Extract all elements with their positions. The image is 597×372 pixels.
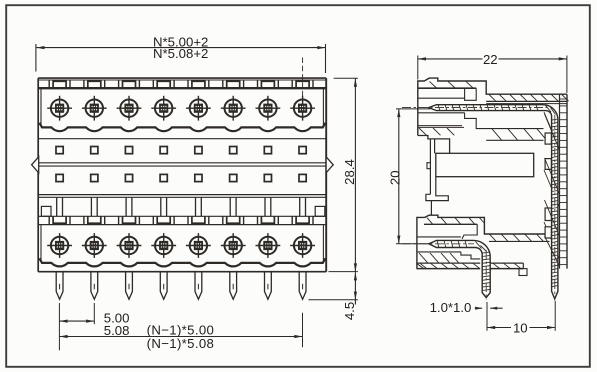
side view mounting foot <box>519 269 527 276</box>
svg-text:20: 20 <box>387 170 402 185</box>
side view lower block corner chamfer <box>417 263 424 268</box>
front view upper section inner edges <box>41 89 323 126</box>
side view wall tab 2 <box>545 159 551 170</box>
front view slots bottom line <box>38 215 326 217</box>
front view body outline <box>38 78 326 272</box>
dimension N*5.00+2 / N*5.08+2 <box>36 34 326 73</box>
dimension 1.0*1.0 pin size <box>430 300 503 315</box>
svg-text:1.0*1.0: 1.0*1.0 <box>430 300 472 315</box>
screw terminal bottom row 8 <box>294 237 311 254</box>
screw terminal top row 4 <box>155 100 172 117</box>
screw terminal bottom row 1 <box>51 237 68 254</box>
side view wall tab 3 <box>545 208 551 221</box>
screw terminal top row 5 <box>190 100 207 117</box>
front view upper wavy edge <box>39 123 325 131</box>
front view middle double line <box>38 163 326 166</box>
svg-text:(N−1)*5.08: (N−1)*5.08 <box>147 336 215 351</box>
side view hatch under pin shelf <box>492 129 547 140</box>
side view lower housing outline <box>417 215 550 268</box>
screw terminal top row 1 <box>51 100 68 117</box>
front view divider line <box>38 138 326 140</box>
side view upper housing outline <box>418 78 567 153</box>
upper solder pin <box>429 105 558 299</box>
lower solder pin <box>429 240 491 297</box>
dimension 28.4 <box>334 78 358 271</box>
left polarization wedge <box>32 157 39 173</box>
front view top strip latch slots <box>49 80 313 88</box>
dimension 5.00 pitch <box>59 303 129 350</box>
side view bottom wall band <box>417 263 524 269</box>
front view contact slots <box>57 197 306 216</box>
side view dimension 20 <box>387 109 430 244</box>
screw terminal bottom row 5 <box>190 237 207 254</box>
svg-text:4.5: 4.5 <box>342 302 357 320</box>
front view left step box <box>41 206 51 216</box>
front view bottom strip line <box>38 224 326 226</box>
svg-text:5.08: 5.08 <box>104 323 130 338</box>
svg-text:22: 22 <box>483 52 498 67</box>
screw terminal bottom row 6 <box>225 237 242 254</box>
front view top inner line <box>38 79 326 81</box>
front view lower section inner edges <box>41 225 323 261</box>
front view square holes row 1 <box>56 147 306 154</box>
front view square holes row 2 <box>56 174 306 181</box>
svg-text:N*5.08+2: N*5.08+2 <box>153 46 208 61</box>
front view lower wavy edge <box>39 258 325 266</box>
side view T stem <box>426 139 448 215</box>
front view solder pins <box>56 272 306 300</box>
side view dimension 10 <box>487 301 555 335</box>
front view top strip bottom line <box>38 87 326 89</box>
side view lower pin slot lines <box>417 237 480 259</box>
dimension (N-1)*5.00 span <box>59 313 302 351</box>
front view lower double line <box>38 195 326 198</box>
screw terminal bottom row 4 <box>155 237 172 254</box>
screw terminal bottom row 2 <box>86 237 103 254</box>
side view lower left hatch <box>419 253 459 263</box>
right polarization wedge <box>326 157 333 173</box>
side view dimension 22 <box>418 52 567 93</box>
screw terminal bottom row 7 <box>259 237 276 254</box>
side view lower arm hatch <box>490 234 544 241</box>
upper pin dash-dot centerline <box>402 108 555 301</box>
screw terminal bottom row 3 <box>120 237 137 254</box>
svg-text:10: 10 <box>513 320 528 335</box>
front view right step box <box>315 206 325 216</box>
front view bottom strip latch slots <box>49 216 313 224</box>
lower pin dash-dot centerline <box>402 244 486 300</box>
side view front-wall steep hatch <box>545 114 560 266</box>
side view wall tab 4 <box>545 227 551 238</box>
side view upper inner lines <box>418 81 544 140</box>
screw terminal top row 8 <box>294 100 311 117</box>
side view inner cavity rectangle <box>436 153 534 176</box>
screw terminal top row 2 <box>86 100 103 117</box>
side view rear diagonals <box>544 112 560 259</box>
side view wall tab 1 <box>545 133 551 144</box>
svg-text:28.4: 28.4 <box>342 159 357 185</box>
side view right wall with rungs <box>560 94 568 268</box>
screw terminal top row 6 <box>225 100 242 117</box>
dimension 4.5 <box>309 272 358 321</box>
screw terminal top row 3 <box>120 100 137 117</box>
side view top wall hatched band <box>486 95 568 104</box>
screw terminal top row 7 <box>259 100 276 117</box>
terminal 8 centerline <box>302 58 304 104</box>
